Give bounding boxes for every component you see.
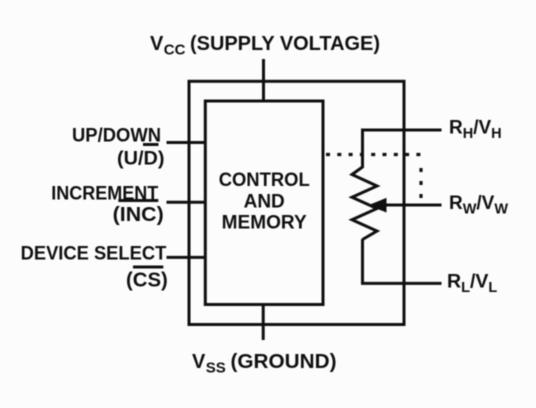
control and memory block U1 xyxy=(205,101,323,305)
wiper arrow of potentiometer xyxy=(368,198,387,213)
svg-text:MEMORY: MEMORY xyxy=(222,213,307,234)
wire RH/VH lead xyxy=(363,130,442,168)
svg-text:R: R xyxy=(449,118,463,139)
svg-text:(CS): (CS) xyxy=(126,270,168,292)
pin label (INC) with overline xyxy=(113,199,164,226)
wire VCC lead xyxy=(262,59,265,101)
svg-text:R: R xyxy=(447,271,461,293)
wire U/D input xyxy=(167,141,206,144)
dotted control path vertical xyxy=(419,168,422,202)
wire RL/VL lead xyxy=(363,239,442,283)
svg-text:/V: /V xyxy=(470,271,488,293)
node VCC label xyxy=(150,33,380,59)
svg-text:(GROUND): (GROUND) xyxy=(231,351,337,373)
svg-text:V: V xyxy=(192,351,206,373)
wire RW/VW wiper lead xyxy=(384,204,442,207)
svg-text:H: H xyxy=(463,126,473,142)
wire VSS lead xyxy=(262,305,265,341)
svg-text:L: L xyxy=(461,280,470,296)
svg-text:SS: SS xyxy=(206,360,226,377)
svg-text:/V: /V xyxy=(473,118,491,139)
svg-text:/V: /V xyxy=(476,193,494,214)
svg-text:AND: AND xyxy=(244,192,285,213)
svg-text:CONTROL: CONTROL xyxy=(219,170,310,191)
wire INC input xyxy=(167,201,206,204)
svg-text:DEVICE SELECT: DEVICE SELECT xyxy=(21,244,167,265)
svg-text:V: V xyxy=(150,33,164,55)
svg-text:(U/D): (U/D) xyxy=(117,148,165,170)
svg-text:(SUPPLY VOLTAGE): (SUPPLY VOLTAGE) xyxy=(190,33,380,55)
svg-text:W: W xyxy=(494,202,508,218)
svg-text:CC: CC xyxy=(164,42,186,59)
pin label RW/VW xyxy=(449,193,508,218)
svg-text:L: L xyxy=(488,280,497,296)
resistor R1 (potentiometer element) xyxy=(352,167,377,240)
svg-text:R: R xyxy=(449,193,463,214)
block text CONTROL AND MEMORY xyxy=(219,170,310,234)
node VSS label xyxy=(192,351,337,377)
svg-text:W: W xyxy=(463,202,477,218)
svg-text:(INC): (INC) xyxy=(113,204,164,226)
pin label (CS) with overline xyxy=(126,266,168,292)
pin label RH/VH xyxy=(449,118,502,143)
svg-text:H: H xyxy=(491,126,501,142)
wire CS input xyxy=(167,256,206,259)
pin label (U/D) with overline on D xyxy=(117,143,165,170)
dotted control path horizontal xyxy=(326,153,422,156)
outer box (device boundary) xyxy=(189,81,404,324)
pin label RL/VL xyxy=(447,271,497,297)
